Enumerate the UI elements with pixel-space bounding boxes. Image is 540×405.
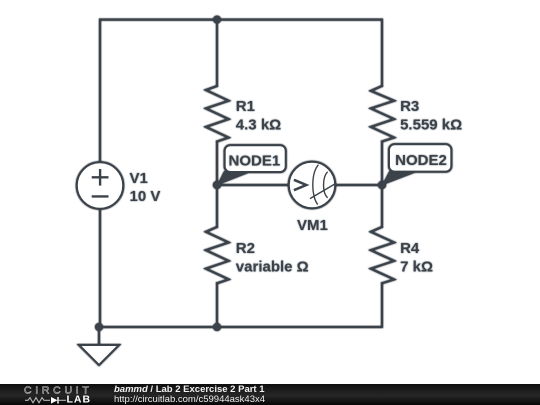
wire middle vertical top (top wire to R1) [216,20,218,86]
svg-text:7 kΩ: 7 kΩ [400,259,433,276]
NODE1 callout pointer [217,171,250,185]
wire R1 to node A [216,142,218,186]
junction dot bottom middle (R2 tee) [213,323,221,331]
svg-text:10 V: 10 V [130,188,161,205]
logo diode [51,397,58,404]
wire R3 to node B [381,142,383,186]
svg-text:variable Ω: variable Ω [236,259,309,276]
wire bottom horizontal [99,326,382,328]
wire voltmeter to node B [335,184,382,186]
svg-text:R2: R2 [236,240,255,257]
wire left vertical upper (top wire to V1) [99,20,101,163]
VM1 meter arc 2 [324,172,328,198]
svg-text:4.3 kΩ: 4.3 kΩ [236,117,281,134]
wire node A to voltmeter [217,184,289,186]
wire top horizontal [100,19,382,21]
svg-text:LAB: LAB [67,394,92,405]
VM1 greater-than symbol [294,180,306,190]
svg-text:NODE2: NODE2 [395,152,447,169]
svg-text:R4: R4 [400,240,420,257]
svg-text:R3: R3 [400,98,419,115]
svg-text:NODE1: NODE1 [229,153,281,170]
node A junction dot (NODE1) [213,181,221,189]
VM1 needle [310,184,335,199]
NODE2 callout pointer [382,171,415,185]
svg-text:5.559 kΩ: 5.559 kΩ [400,117,462,134]
voltage source V1 [77,162,123,208]
logo resistor squiggle [25,398,50,403]
footer attribution bar [0,384,540,405]
resistor R4 [371,227,394,283]
wire node B to R4 [381,185,383,227]
resistor R1 [206,86,229,142]
wire left vertical lower (V1 to bottom wire) [99,209,101,328]
CircuitLab logo [0,384,110,405]
wire R2 to bottom wire [216,283,218,327]
attribution line 2 (url) [114,394,265,405]
wire R4 to bottom wire [381,283,383,327]
junction dot bottom left (ground tee) [95,323,103,331]
VM1 meter arc 1 [313,165,319,205]
attribution line 1 [114,384,265,395]
wire right vertical top (top wire to R3) [381,20,383,86]
voltmeter VM1 body [289,162,335,208]
NODE2 flag box [389,144,451,171]
svg-text:V1: V1 [130,170,148,187]
junction dot top (V1/R1/R3 tee) [213,16,221,24]
logo wire to LAB [59,399,67,401]
V1 plus sign [92,169,109,186]
NODE1 flag box [225,145,286,172]
node B junction dot (NODE2) [378,181,386,189]
svg-text:VM1: VM1 [297,217,328,234]
wire node A to R2 [216,185,218,227]
resistor R2 [206,227,229,283]
ground [79,345,119,365]
svg-text:R1: R1 [236,98,255,115]
ground stub wire [98,327,100,345]
resistor R3 [371,86,394,142]
V1 minus sign [92,195,109,197]
